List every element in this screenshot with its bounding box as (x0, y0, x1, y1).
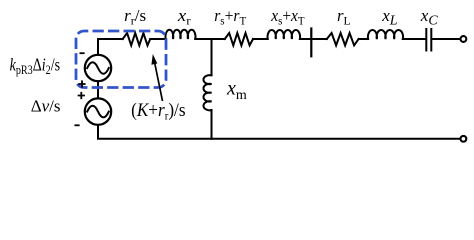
annotation arrow (K+r_r)/s pointer (151, 54, 162, 101)
wire (300, 38, 327, 40)
node bus bar (310, 29, 312, 57)
inductor Xm (x_m) vertical (203, 75, 211, 110)
wire to top terminal (432, 38, 460, 40)
wire (195, 38, 225, 40)
capacitor XC left plate (425, 29, 427, 51)
svg-text:rr/s: rr/s (124, 6, 146, 28)
polarity plus, bottom source top (78, 92, 85, 99)
wire below V2 to bottom rail (98, 125, 460, 139)
wire (253, 38, 268, 40)
inductor XL (x_L) (368, 30, 403, 39)
source V1 circle (k source) (85, 55, 111, 81)
source V2 circle (dv source) (85, 98, 111, 124)
wire: left vertical from top source up and right to resistor (98, 39, 123, 55)
blue dashed feedback box (76, 31, 166, 88)
sine in V2 (87, 106, 109, 118)
capacitor XC right plate (430, 29, 432, 51)
xm branch wire bottom (211, 110, 213, 139)
xm branch wire top (211, 39, 213, 75)
resistor RL (r_L) (327, 33, 359, 45)
polarity minus, top source top (80, 52, 85, 54)
wire (403, 38, 426, 40)
svg-text:Δv/s: Δv/s (31, 97, 61, 116)
top terminal (461, 36, 467, 42)
svg-text:(K+rr)/s: (K+rr)/s (131, 99, 185, 122)
resistor Rs+RT (r_s+r_T) (225, 33, 253, 45)
arrow head (151, 54, 157, 65)
resistor Rr (r_r/s) (123, 33, 151, 45)
inductor Xr (x_r) (165, 30, 195, 39)
inductor Xs+XT (x_s+x_T) (268, 30, 301, 39)
arrow shaft (155, 63, 163, 102)
sine in V1 (87, 62, 109, 74)
wire (359, 38, 369, 40)
wire between sources (97, 81, 99, 98)
polarity plus, top source bottom (78, 80, 85, 87)
polarity minus, bottom source bottom (75, 124, 80, 126)
wire (150, 38, 166, 40)
bottom terminal (461, 136, 467, 142)
